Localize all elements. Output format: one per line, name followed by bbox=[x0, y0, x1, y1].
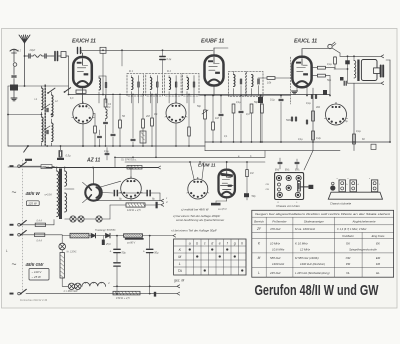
wire bbox=[93, 168, 95, 185]
svg-text:a: a bbox=[189, 241, 191, 245]
trimmer box bbox=[100, 47, 106, 53]
capacitor bbox=[102, 240, 105, 245]
rectifier diode D1 bbox=[91, 233, 96, 238]
junction dots transformer rail bbox=[56, 167, 58, 169]
terminal block 2 bbox=[350, 180, 356, 192]
resistor bbox=[250, 104, 253, 113]
svg-text:und 2: und 2 bbox=[15, 50, 22, 53]
svg-text:0,1: 0,1 bbox=[154, 113, 158, 116]
node bbox=[121, 49, 123, 51]
svg-text:Funkschau 001/12 4.49: Funkschau 001/12 4.49 bbox=[20, 298, 48, 302]
output transformer T2 bbox=[357, 60, 359, 82]
electrolytic 8µ second bbox=[146, 190, 148, 197]
svg-text:12 MHz: 12 MHz bbox=[300, 248, 311, 252]
svg-text:c: c bbox=[204, 241, 206, 245]
AGC capacitor bbox=[111, 133, 115, 135]
svg-text:48/II W: 48/II W bbox=[25, 191, 41, 196]
svg-text:0,2µ: 0,2µ bbox=[316, 137, 321, 140]
oscillator coil L2 bbox=[52, 95, 54, 117]
terminal blob bbox=[340, 77, 344, 81]
ground bbox=[292, 90, 298, 92]
pin bottom left bbox=[277, 192, 282, 197]
IF transformer Fi3a bbox=[229, 72, 246, 97]
volume potentiometer bbox=[204, 110, 207, 119]
alignment frequency table bbox=[252, 210, 394, 277]
svg-text:h: h bbox=[241, 241, 243, 245]
ground bbox=[11, 97, 17, 99]
IF transformer Fi2b bbox=[183, 74, 200, 97]
svg-text:OL: OL bbox=[346, 271, 350, 275]
junction dots rail 94.5 bbox=[68, 94, 70, 96]
vertical bbox=[116, 235, 118, 237]
rail bbox=[93, 200, 161, 202]
slot bbox=[297, 182, 300, 192]
switch to ground bbox=[24, 146, 28, 152]
svg-text:ca 80 V: ca 80 V bbox=[127, 242, 136, 245]
IF/AF tube U2 E/UBF11 bbox=[205, 56, 224, 86]
svg-text:M: M bbox=[178, 255, 181, 259]
rail bbox=[205, 141, 390, 143]
series capacitor bbox=[12, 75, 17, 77]
svg-text:EM₃: EM₃ bbox=[295, 170, 299, 172]
wire bbox=[51, 92, 53, 95]
svg-text:~ 110 V: ~ 110 V bbox=[32, 270, 43, 274]
IF transformer Fi2a bbox=[165, 74, 182, 97]
right rail bbox=[389, 60, 391, 142]
oscillator coil L2b bbox=[52, 123, 54, 142]
svg-text:E/UBF 11: E/UBF 11 bbox=[201, 39, 224, 45]
svg-text:150 Ω + 2,5: 150 Ω + 2,5 bbox=[116, 296, 130, 300]
wire bbox=[24, 56, 26, 86]
svg-text:50p: 50p bbox=[252, 195, 257, 198]
socket X2 bbox=[166, 103, 186, 123]
diagonal wire bbox=[101, 181, 121, 187]
target capacitor bbox=[211, 203, 221, 206]
svg-text:50p: 50p bbox=[197, 105, 202, 108]
wire bbox=[334, 68, 348, 70]
alignment point table bbox=[174, 239, 246, 275]
wire bbox=[116, 286, 118, 293]
feed diagonals bbox=[190, 162, 194, 179]
loudspeaker bbox=[361, 60, 377, 81]
svg-text:20pF: 20pF bbox=[29, 49, 36, 52]
wire bbox=[332, 48, 340, 53]
wave switch 2 bbox=[65, 88, 71, 92]
guide hole bbox=[278, 183, 281, 186]
anode lead bbox=[83, 182, 88, 187]
mains plug row 2 bbox=[10, 224, 14, 226]
rectifier tube U4 AZ11 bbox=[85, 184, 101, 200]
junction dots rail 142 bbox=[212, 141, 214, 143]
svg-text:Abgleichelemente: Abgleichelemente bbox=[352, 220, 376, 224]
fuse bbox=[35, 223, 45, 226]
svg-text:Prüfsender: Prüfsender bbox=[272, 220, 287, 224]
jack bbox=[328, 44, 332, 48]
pin center bbox=[286, 185, 291, 190]
resistor bbox=[334, 57, 337, 64]
svg-text:+) bei einem Teil der Auflage: +) bei einem Teil der Auflage 50pF bbox=[171, 229, 217, 233]
svg-text:0,1µ: 0,1µ bbox=[167, 58, 172, 61]
filter choke bbox=[82, 282, 106, 286]
electrolytic 50µ b bbox=[147, 248, 153, 250]
svg-text:470 kHz: 470 kHz bbox=[270, 227, 281, 231]
wire bbox=[97, 235, 106, 237]
svg-text:125 W: 125 W bbox=[28, 202, 37, 206]
socket X3 bbox=[326, 104, 347, 125]
resistor bbox=[188, 127, 191, 136]
rating box bbox=[26, 201, 39, 206]
svg-text:ca 4,5 V: ca 4,5 V bbox=[218, 208, 227, 211]
svg-text:Gerufon 48/II W und GW: Gerufon 48/II W und GW bbox=[255, 283, 379, 299]
rail bbox=[69, 94, 331, 96]
padder chain bbox=[104, 99, 107, 107]
rail bbox=[200, 95, 290, 97]
wire bbox=[113, 285, 177, 287]
svg-text:+: + bbox=[143, 250, 145, 254]
tube socket X1 bbox=[73, 103, 93, 123]
svg-text:1400 kHz (Drehkon): 1400 kHz (Drehkon) bbox=[300, 262, 325, 266]
mains transformer T1 core bbox=[59, 169, 62, 220]
svg-text:Fi 2: Fi 2 bbox=[167, 70, 172, 73]
mains switch bbox=[21, 162, 27, 166]
svg-text:50µ: 50µ bbox=[154, 252, 159, 255]
connection arrow bbox=[381, 82, 384, 85]
svg-text:10,6 MHz: 10,6 MHz bbox=[272, 248, 285, 252]
rating box GW bbox=[29, 269, 49, 281]
svg-text:50p: 50p bbox=[327, 79, 332, 82]
dropping resistor bbox=[60, 253, 64, 279]
svg-text:EL: EL bbox=[376, 271, 380, 275]
svg-text:C 1,4 (6 ?) 1 MHz, 3 MHz: C 1,4 (6 ?) 1 MHz, 3 MHz bbox=[337, 227, 367, 231]
dashed chassis boundary bbox=[21, 160, 23, 292]
svg-text:1 × 48/II GW: 1 × 48/II GW bbox=[63, 290, 78, 293]
svg-text:Oszillator: Oszillator bbox=[342, 234, 355, 238]
switch bottom bbox=[10, 293, 14, 295]
dashed screen line bbox=[290, 57, 292, 104]
grid capacitor bbox=[279, 98, 283, 100]
wire bbox=[13, 67, 15, 75]
resistor bbox=[353, 134, 356, 144]
pin bottom right bbox=[295, 192, 300, 197]
svg-text:Gl. 5747/53 u.: Gl. 5747/53 u. bbox=[121, 159, 137, 162]
cathode wire bbox=[296, 87, 298, 91]
wire bbox=[114, 157, 116, 167]
coupling capacitor bbox=[219, 113, 223, 115]
svg-text:5000: 5000 bbox=[286, 119, 292, 122]
svg-text:0,1µ: 0,1µ bbox=[356, 130, 361, 133]
rail bbox=[8, 166, 46, 168]
svg-text:Bereich: Bereich bbox=[254, 220, 264, 224]
resistor on rail bbox=[371, 144, 376, 149]
wire bbox=[130, 168, 132, 179]
output tube U3 E/UCL11 bbox=[292, 57, 311, 87]
feed wire bbox=[312, 88, 314, 151]
wire bbox=[82, 124, 84, 146]
bypass capacitor bbox=[98, 135, 102, 137]
mains plug row 3 bbox=[10, 234, 14, 236]
coil core bbox=[44, 85, 46, 145]
svg-text:EM₂: EM₂ bbox=[285, 170, 289, 172]
svg-text:Spiegelfrequenzkontrolle: Spiegelfrequenzkontrolle bbox=[349, 249, 377, 252]
svg-text:gez. M: gez. M bbox=[174, 279, 184, 283]
svg-text:e: e bbox=[219, 241, 221, 245]
svg-text:L: L bbox=[6, 249, 8, 253]
antenna bush bbox=[13, 63, 17, 67]
pin EM2 bbox=[286, 175, 291, 180]
svg-text:Chassis rückseite: Chassis rückseite bbox=[330, 201, 352, 205]
svg-text:EM₁: EM₁ bbox=[275, 170, 279, 172]
rail bbox=[110, 204, 126, 206]
IF transformer Fi1a bbox=[127, 74, 144, 97]
cathode resistor bbox=[76, 90, 86, 93]
wire bbox=[155, 95, 157, 158]
top wire bbox=[81, 49, 214, 51]
electrolytic 8µ bbox=[114, 190, 116, 197]
wire bbox=[24, 43, 26, 56]
main antenna bbox=[19, 35, 30, 43]
capacitor bbox=[305, 120, 307, 124]
wire bbox=[121, 50, 123, 66]
wire bbox=[62, 235, 70, 237]
svg-text:Eing.Kreis: Eing.Kreis bbox=[372, 234, 385, 238]
wire bbox=[65, 188, 74, 190]
junction dots rail 95.5 bbox=[204, 95, 206, 97]
grid resistor bbox=[246, 170, 249, 177]
screen resistor bbox=[317, 74, 325, 77]
capacitor bbox=[239, 110, 243, 112]
svg-text:Nr. 12041: Nr. 12041 bbox=[67, 251, 78, 254]
IF transformer Fi3b bbox=[247, 72, 264, 97]
coupling capacitor bbox=[44, 54, 46, 58]
wire bbox=[353, 83, 355, 150]
svg-text:0,4 A: 0,4 A bbox=[37, 240, 43, 243]
wire bbox=[20, 165, 41, 167]
socket X5 bbox=[188, 179, 208, 199]
svg-text:d: d bbox=[211, 241, 213, 245]
transformer top rail bbox=[46, 167, 158, 169]
top cap wire bbox=[213, 48, 215, 56]
svg-text:1400 kHz: 1400 kHz bbox=[272, 262, 285, 266]
heater winding bbox=[65, 193, 67, 212]
svg-text:Trockengl. 5747/53: Trockengl. 5747/53 bbox=[95, 229, 116, 232]
svg-text:50p: 50p bbox=[254, 101, 259, 104]
capacitor 0,1 bbox=[160, 56, 165, 58]
svg-text:L 245 kHz (Störbedämpfung): L 245 kHz (Störbedämpfung) bbox=[295, 271, 330, 275]
capacitor bbox=[294, 117, 296, 121]
svg-text:0,4 A: 0,4 A bbox=[37, 220, 43, 223]
svg-text:0,1µ: 0,1µ bbox=[104, 150, 109, 153]
junction dots rail 157.3 bbox=[114, 156, 116, 158]
selenium rectifier bbox=[124, 234, 143, 238]
node bbox=[24, 55, 26, 57]
resistor bbox=[113, 291, 140, 295]
blocking capacitor bbox=[10, 85, 18, 91]
svg-text:588 kHz: 588 kHz bbox=[270, 256, 281, 260]
mains plug row 1 bbox=[10, 165, 14, 167]
chassis bar bbox=[25, 159, 32, 161]
svg-text:120 Ω + 2,5: 120 Ω + 2,5 bbox=[127, 208, 141, 212]
screen resistor bbox=[142, 119, 145, 128]
svg-text:AZ 11: AZ 11 bbox=[86, 158, 100, 164]
svg-text:~: ~ bbox=[12, 187, 17, 197]
svg-text:g: g bbox=[234, 241, 236, 245]
capacitor pair bbox=[310, 95, 312, 99]
wire bbox=[175, 96, 177, 103]
switch bbox=[21, 220, 27, 224]
wire bbox=[61, 278, 63, 286]
svg-text:M 588 kHz (1400k): M 588 kHz (1400k) bbox=[295, 256, 319, 260]
wave switch bbox=[48, 88, 55, 93]
svg-text:Skalenanzeiger: Skalenanzeiger bbox=[304, 220, 325, 224]
cap to socket 2 bbox=[295, 161, 299, 163]
terminal block 1 bbox=[339, 180, 345, 192]
wire bbox=[13, 79, 15, 85]
svg-text:sonst Ausführung als Quetschtr: sonst Ausführung als Quetschtrimmer bbox=[176, 218, 225, 222]
svg-text:Gegen bei abgeschaltetem Drehk: Gegen bei abgeschaltetem Drehko soll rec… bbox=[255, 212, 390, 216]
barretter lamp bbox=[59, 243, 66, 250]
node bbox=[51, 114, 53, 116]
wire to strip bbox=[304, 151, 313, 170]
svg-text:0,1: 0,1 bbox=[107, 105, 111, 109]
smoothing cap 0,5µ bbox=[60, 145, 62, 147]
svg-text:0,1µ: 0,1µ bbox=[236, 101, 241, 104]
svg-text:E/UCL 11: E/UCL 11 bbox=[294, 39, 317, 45]
resistor hatched bbox=[140, 131, 146, 143]
series resistor bbox=[70, 233, 89, 238]
guide hole 2 bbox=[278, 188, 281, 191]
rear strip platform bbox=[328, 192, 382, 199]
resistor bbox=[261, 104, 264, 113]
svg-text:Chassis von Unten: Chassis von Unten bbox=[276, 204, 300, 208]
connection arrow bbox=[381, 55, 384, 58]
tuning coil L1b bbox=[42, 117, 44, 142]
svg-text:E/UM 11: E/UM 11 bbox=[198, 163, 216, 168]
svg-text:EM: EM bbox=[376, 256, 381, 260]
svg-text:0,1µ: 0,1µ bbox=[327, 63, 332, 66]
fixed capacitor bbox=[54, 52, 56, 61]
chassis socket rear view bbox=[275, 173, 304, 200]
capacitor bar bbox=[156, 202, 158, 209]
terminal block 3 bbox=[371, 180, 377, 192]
switch bbox=[21, 230, 27, 234]
lead bbox=[300, 186, 309, 188]
svg-text:0,1µ: 0,1µ bbox=[270, 99, 275, 102]
rail bbox=[8, 145, 205, 147]
oscillator coil pack bbox=[99, 78, 101, 90]
resistor bbox=[232, 104, 235, 113]
grid cap bbox=[77, 48, 79, 54]
capacitor 50p bbox=[244, 193, 249, 197]
dish antenna bbox=[10, 49, 18, 51]
tube socket X4 bbox=[121, 178, 142, 199]
pin EM1 bbox=[276, 175, 281, 180]
wire bbox=[82, 87, 84, 103]
rail bbox=[115, 156, 265, 158]
wire bbox=[111, 235, 124, 237]
capacitor pair bbox=[343, 81, 345, 85]
IF transformer Fi1b bbox=[146, 74, 163, 97]
svg-text:48/II GW: 48/II GW bbox=[25, 262, 45, 267]
svg-text:0,5µ: 0,5µ bbox=[66, 154, 72, 158]
svg-text:0,5µ: 0,5µ bbox=[343, 120, 348, 123]
wire bbox=[340, 55, 381, 57]
cap to socket bbox=[278, 161, 282, 163]
electrolytic 50µ bbox=[114, 248, 120, 250]
capacitor bbox=[323, 90, 327, 95]
diode load resistor bbox=[212, 122, 215, 130]
svg-text:10k: 10k bbox=[267, 81, 272, 85]
capacitor bbox=[345, 60, 350, 64]
magic eye tube U5 E/UM11 bbox=[219, 170, 235, 198]
resistor bbox=[119, 120, 122, 128]
wire bbox=[89, 235, 91, 237]
svg-text:245 kHz: 245 kHz bbox=[269, 271, 281, 275]
fuse bbox=[34, 233, 44, 236]
svg-text:50µ: 50µ bbox=[122, 252, 127, 255]
resistor bbox=[312, 131, 315, 140]
svg-text:L: L bbox=[179, 262, 181, 266]
primary winding bbox=[57, 171, 59, 217]
voltage selector bbox=[41, 165, 52, 169]
secondary HT winding bbox=[65, 171, 67, 186]
svg-text:PM: PM bbox=[346, 262, 351, 266]
wire bbox=[8, 114, 42, 116]
rail bbox=[125, 161, 265, 163]
mixer tube U1 E/UCH11 bbox=[73, 57, 92, 87]
svg-text:0,3: 0,3 bbox=[246, 112, 250, 116]
svg-text:c) enthält bei 48/II W: c) enthält bei 48/II W bbox=[181, 207, 210, 211]
svg-text:M ca. 1600 kHz: M ca. 1600 kHz bbox=[295, 227, 316, 231]
smoothing resistor bbox=[126, 203, 145, 207]
trimmer 2 bbox=[44, 126, 50, 130]
wire bbox=[306, 87, 308, 96]
cathode resistor 2 bbox=[94, 126, 97, 133]
wire bbox=[66, 55, 69, 57]
vertical bbox=[149, 236, 151, 249]
trimmer bbox=[44, 104, 50, 108]
svg-text:~ 25 W: ~ 25 W bbox=[32, 275, 42, 279]
antenna capacitor bbox=[28, 54, 30, 58]
grid stopper resistor bbox=[267, 77, 275, 80]
svg-text:25,0: 25,0 bbox=[105, 244, 111, 246]
svg-text:L: L bbox=[258, 271, 260, 275]
svg-text:0,1µ: 0,1µ bbox=[306, 102, 311, 105]
heater lamps bbox=[70, 216, 76, 222]
decoupling capacitor bbox=[131, 138, 135, 140]
resistor chain bbox=[151, 118, 154, 126]
hatched resistor bbox=[127, 166, 142, 170]
top cap wire bbox=[301, 49, 303, 57]
capacitor bar bbox=[154, 292, 156, 297]
svg-text:η=0,5A: η=0,5A bbox=[45, 194, 53, 197]
svg-text:TA: TA bbox=[178, 269, 183, 273]
wire bbox=[213, 86, 215, 96]
svg-text:FM: FM bbox=[376, 262, 381, 266]
trimmer box bbox=[61, 52, 66, 58]
tuning coil L1 bbox=[42, 88, 44, 110]
svg-text:1M: 1M bbox=[250, 172, 253, 175]
svg-text:Fi 1: Fi 1 bbox=[129, 70, 134, 73]
rectifier diode D2 bbox=[106, 233, 111, 238]
earth bush bbox=[330, 185, 335, 190]
junction dots rail 146 bbox=[46, 145, 48, 147]
wire bbox=[348, 82, 382, 84]
svg-text:~: ~ bbox=[12, 259, 17, 269]
resistor bbox=[312, 111, 315, 121]
svg-text:E/UCH 11: E/UCH 11 bbox=[72, 39, 96, 45]
bottom rail bbox=[26, 293, 177, 295]
electrolytic bbox=[258, 97, 263, 103]
